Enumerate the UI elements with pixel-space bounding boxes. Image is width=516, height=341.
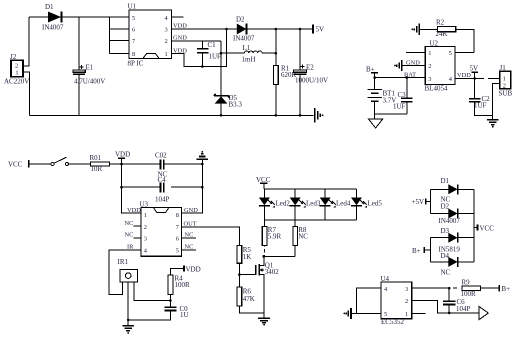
resistor R5 xyxy=(237,245,251,287)
svg-text:D1: D1 xyxy=(441,177,450,185)
svg-text:1: 1 xyxy=(144,212,147,219)
ground left of R2 xyxy=(411,24,419,36)
capacitor C02 xyxy=(155,151,202,178)
wire pin4 VDD row xyxy=(455,77,484,79)
IC U3 xyxy=(140,200,182,256)
svg-text:GND: GND xyxy=(406,59,420,66)
node VCC terminal xyxy=(8,160,29,168)
node junction bottom rail xyxy=(220,114,223,117)
LED Led2 xyxy=(259,189,290,220)
wire U3 pin2 stub NC xyxy=(125,220,141,227)
wire D1/D2 left rail xyxy=(431,189,449,213)
IC U4 EC5352 xyxy=(381,275,412,326)
svg-text:IR: IR xyxy=(127,244,134,251)
ground triangle below BT1 xyxy=(369,119,383,128)
svg-text:B+: B+ xyxy=(502,285,511,293)
svg-text:47K: 47K xyxy=(243,295,255,303)
speaker triangle xyxy=(479,307,488,320)
svg-text:104P: 104P xyxy=(155,196,170,204)
wire left AC line vertical (pin2 up) xyxy=(23,17,29,66)
wire U4 pin3 row xyxy=(412,287,449,289)
svg-text:100R: 100R xyxy=(175,281,191,289)
capacitor C2 xyxy=(469,78,493,115)
svg-text:NC: NC xyxy=(125,220,134,227)
svg-text:10R: 10R xyxy=(91,165,103,173)
wire U3 pin7 OUT route xyxy=(181,220,239,245)
wire source to ground xyxy=(263,275,265,313)
svg-text:OUT: OUT xyxy=(184,220,197,227)
switch S1 xyxy=(29,157,91,165)
svg-text:1UF: 1UF xyxy=(209,53,222,61)
svg-text:3402: 3402 xyxy=(265,268,280,276)
battery BT1 xyxy=(368,73,397,119)
svg-text:24K: 24K xyxy=(436,30,448,38)
svg-text:C3: C3 xyxy=(398,91,407,99)
wire U4 pin5 row xyxy=(351,312,381,314)
wire bottom rail xyxy=(29,114,313,116)
svg-text:8: 8 xyxy=(132,51,135,58)
wire IR1 middle leg to ground xyxy=(127,282,129,326)
resistor R4 xyxy=(168,275,190,308)
ground left of U4 xyxy=(343,308,351,319)
inductor L1 xyxy=(221,44,276,64)
svg-text:VCC: VCC xyxy=(8,161,23,169)
wire gate wire xyxy=(239,274,255,276)
svg-text:U1: U1 xyxy=(128,3,137,11)
op-amp U1 8P IC xyxy=(128,3,172,68)
SECTION: middle-left U3 MCU xyxy=(8,151,239,334)
svg-text:1: 1 xyxy=(503,75,506,82)
wire diode right rail xyxy=(473,189,475,262)
ground below IR1 xyxy=(122,326,134,334)
svg-text:D4: D4 xyxy=(441,252,450,260)
svg-text:1K: 1K xyxy=(243,253,252,261)
resistor R9 xyxy=(461,279,500,298)
connector J2 xyxy=(4,53,29,86)
svg-text:4.7U/400V: 4.7U/400V xyxy=(74,78,105,86)
svg-text:EC5352: EC5352 xyxy=(381,318,404,326)
capacitor E2 xyxy=(294,28,328,116)
svg-text:AC220V: AC220V xyxy=(4,78,29,86)
wire GND column xyxy=(181,164,202,213)
svg-text:E1: E1 xyxy=(86,64,94,72)
svg-text:VCC: VCC xyxy=(480,224,495,232)
node junction pin3/D2 xyxy=(225,28,228,31)
node VDD terminal at R4 xyxy=(170,265,200,275)
wire pin5 stub xyxy=(455,52,474,54)
wire U4 pin2 route xyxy=(412,301,479,313)
wire pin3 BAT row xyxy=(375,77,426,79)
wire U3 pin4 IR route xyxy=(109,244,141,295)
wire pin4 stub xyxy=(171,16,183,18)
svg-text:+5V: +5V xyxy=(412,198,425,206)
svg-text:5V: 5V xyxy=(316,26,325,34)
svg-text:VDD: VDD xyxy=(457,72,471,79)
svg-text:5: 5 xyxy=(449,50,452,57)
svg-text:Led5: Led5 xyxy=(368,199,383,207)
svg-text:D2: D2 xyxy=(441,203,450,211)
svg-text:3: 3 xyxy=(428,76,431,83)
LED Led3 xyxy=(290,189,321,220)
diode D1 xyxy=(42,3,64,32)
svg-text:U4: U4 xyxy=(381,275,390,283)
svg-text:5: 5 xyxy=(384,311,387,318)
svg-text:1000U/10V: 1000U/10V xyxy=(295,77,328,85)
diode D3 xyxy=(439,227,475,254)
svg-text:R01: R01 xyxy=(90,154,102,162)
capacitor C4 xyxy=(122,176,203,204)
svg-text:U2: U2 xyxy=(430,39,439,47)
wire pin3 VDD row xyxy=(171,28,237,30)
svg-text:C4: C4 xyxy=(158,176,167,184)
svg-text:Led2: Led2 xyxy=(276,199,291,207)
ground right of bottom rail xyxy=(315,108,324,123)
node B+ terminal xyxy=(412,247,431,255)
node junction L1 tap xyxy=(220,52,223,55)
wire U3 pin6 stub NC xyxy=(181,232,196,239)
svg-text:B3.3: B3.3 xyxy=(229,101,243,109)
capacitor C6 xyxy=(443,288,470,314)
svg-text:NC: NC xyxy=(185,244,194,251)
capacitor C1 xyxy=(197,41,221,68)
svg-text:IN4007: IN4007 xyxy=(233,35,255,43)
svg-text:D1: D1 xyxy=(45,3,54,11)
diode D4 xyxy=(441,252,475,277)
svg-text:C1: C1 xyxy=(208,41,217,49)
resistor R2 xyxy=(419,19,474,53)
svg-text:3: 3 xyxy=(165,27,168,34)
node VCC terminal xyxy=(256,176,271,189)
svg-text:2: 2 xyxy=(144,224,147,231)
IR receiver IR1 xyxy=(118,258,138,282)
svg-text:NC: NC xyxy=(441,269,451,277)
svg-text:VDD: VDD xyxy=(127,207,141,214)
capacitor C3 xyxy=(375,78,413,114)
ground below J1 xyxy=(487,116,498,128)
svg-text:NC: NC xyxy=(298,233,308,241)
svg-text:VCC: VCC xyxy=(256,176,271,184)
wire U4 pin1 stub xyxy=(412,312,426,314)
svg-text:8: 8 xyxy=(176,212,179,219)
resistor R6 xyxy=(237,287,264,313)
svg-text:2: 2 xyxy=(503,82,506,89)
node +5V terminal xyxy=(412,198,431,206)
svg-text:3: 3 xyxy=(405,286,408,293)
capacitor E1 xyxy=(73,17,106,115)
node VDD terminal xyxy=(115,151,130,166)
ground at U2 pin2 xyxy=(394,59,425,71)
svg-text:1mH: 1mH xyxy=(242,56,256,64)
svg-text:IR1: IR1 xyxy=(118,258,129,266)
wire U3 pin5 stub NC xyxy=(181,244,196,251)
wire top rail xyxy=(29,16,129,18)
resistor R8 xyxy=(293,220,308,257)
node 5V terminal xyxy=(313,25,324,34)
IC U2 BL4054 xyxy=(425,39,455,92)
wire pin1 route xyxy=(171,29,226,67)
svg-text:100R: 100R xyxy=(461,290,477,298)
wire D3/D4 left rail xyxy=(431,238,449,262)
svg-text:1: 1 xyxy=(15,69,18,76)
svg-text:1: 1 xyxy=(165,51,168,58)
svg-text:B+: B+ xyxy=(366,66,375,74)
svg-text:1U: 1U xyxy=(180,311,189,319)
SECTION: top-right charger xyxy=(366,19,512,129)
svg-text:J1: J1 xyxy=(500,64,507,72)
node 5V terminal xyxy=(470,65,479,79)
svg-text:SUB: SUB xyxy=(499,90,513,98)
capacitor C0 xyxy=(128,305,188,320)
svg-text:D2: D2 xyxy=(236,16,245,24)
resistor R1 xyxy=(274,28,297,116)
ground below Q1 xyxy=(258,313,270,325)
svg-text:Led4: Led4 xyxy=(336,199,351,207)
svg-text:5: 5 xyxy=(132,15,135,22)
svg-text:5: 5 xyxy=(176,247,179,254)
wire drain node row xyxy=(264,255,295,257)
wire LED top rail xyxy=(264,188,357,190)
svg-text:IN4007: IN4007 xyxy=(42,24,64,32)
wire IR1 right leg xyxy=(134,282,171,300)
svg-text:NC: NC xyxy=(125,232,134,239)
svg-text:NC: NC xyxy=(185,232,194,239)
resistor R7 xyxy=(262,220,281,246)
wire zener column xyxy=(220,41,222,115)
svg-text:D3: D3 xyxy=(441,227,450,235)
node VCC terminal xyxy=(474,224,494,232)
connector J1 xyxy=(499,64,513,98)
wire U3 pin3 stub NC xyxy=(125,232,141,239)
svg-text:1: 1 xyxy=(405,311,408,318)
LED Led5 xyxy=(351,189,382,220)
resistor R01 xyxy=(90,154,161,173)
svg-text:L1: L1 xyxy=(243,44,251,52)
SECTION: top-left power supply xyxy=(4,3,328,123)
zener diode D5 xyxy=(214,94,243,109)
wire U1 left pin bus xyxy=(110,17,130,54)
svg-text:8P IC: 8P IC xyxy=(128,60,144,68)
LED Led4 xyxy=(320,189,351,220)
node B+ terminal right xyxy=(499,285,510,293)
svg-text:1UF: 1UF xyxy=(393,103,406,111)
diode D1 xyxy=(441,177,475,204)
svg-text:2: 2 xyxy=(428,63,431,70)
SECTION: LED ladder and Q1 xyxy=(237,176,382,326)
svg-text:2: 2 xyxy=(405,298,408,305)
transistor Q1 MOSFET xyxy=(256,256,280,276)
svg-text:R2: R2 xyxy=(436,19,445,27)
ground above C02 (pointing up) xyxy=(197,151,208,164)
svg-text:IN4007: IN4007 xyxy=(439,217,461,225)
svg-text:VDD: VDD xyxy=(115,151,130,159)
diode D2 xyxy=(439,203,475,226)
svg-text:GND: GND xyxy=(184,207,198,214)
svg-text:5.9R: 5.9R xyxy=(268,233,282,241)
svg-text:3: 3 xyxy=(144,236,147,243)
svg-text:6: 6 xyxy=(176,236,179,243)
svg-text:2: 2 xyxy=(165,38,168,45)
svg-text:B+: B+ xyxy=(412,247,421,255)
svg-text:R9: R9 xyxy=(462,279,471,287)
SECTION: diode block and U4 xyxy=(343,177,510,326)
node B+ terminal xyxy=(366,66,378,74)
svg-text:Led3: Led3 xyxy=(306,199,321,207)
wire R7 to drain (broken) xyxy=(264,245,266,256)
svg-text:5V: 5V xyxy=(470,65,479,73)
wire left AC neutral vertical (pin1 down) xyxy=(23,72,29,115)
diode D2 xyxy=(233,16,313,43)
svg-text:104P: 104P xyxy=(456,305,471,313)
svg-text:E2: E2 xyxy=(306,64,314,72)
wire VDD column xyxy=(122,164,141,213)
svg-text:1UF: 1UF xyxy=(474,102,487,110)
wire J1 pin2 down xyxy=(492,84,499,116)
svg-text:BL4054: BL4054 xyxy=(425,85,448,93)
svg-text:J2: J2 xyxy=(10,53,17,61)
wire pin1 stub xyxy=(406,52,425,54)
svg-text:VDD: VDD xyxy=(186,265,201,273)
svg-text:C02: C02 xyxy=(155,151,167,159)
wire U4 pin4 loop xyxy=(356,288,381,313)
wire pin2 GND row xyxy=(171,40,221,42)
svg-text:1: 1 xyxy=(428,50,431,57)
wire LED bottom rail xyxy=(264,219,356,221)
svg-text:6: 6 xyxy=(132,27,135,34)
